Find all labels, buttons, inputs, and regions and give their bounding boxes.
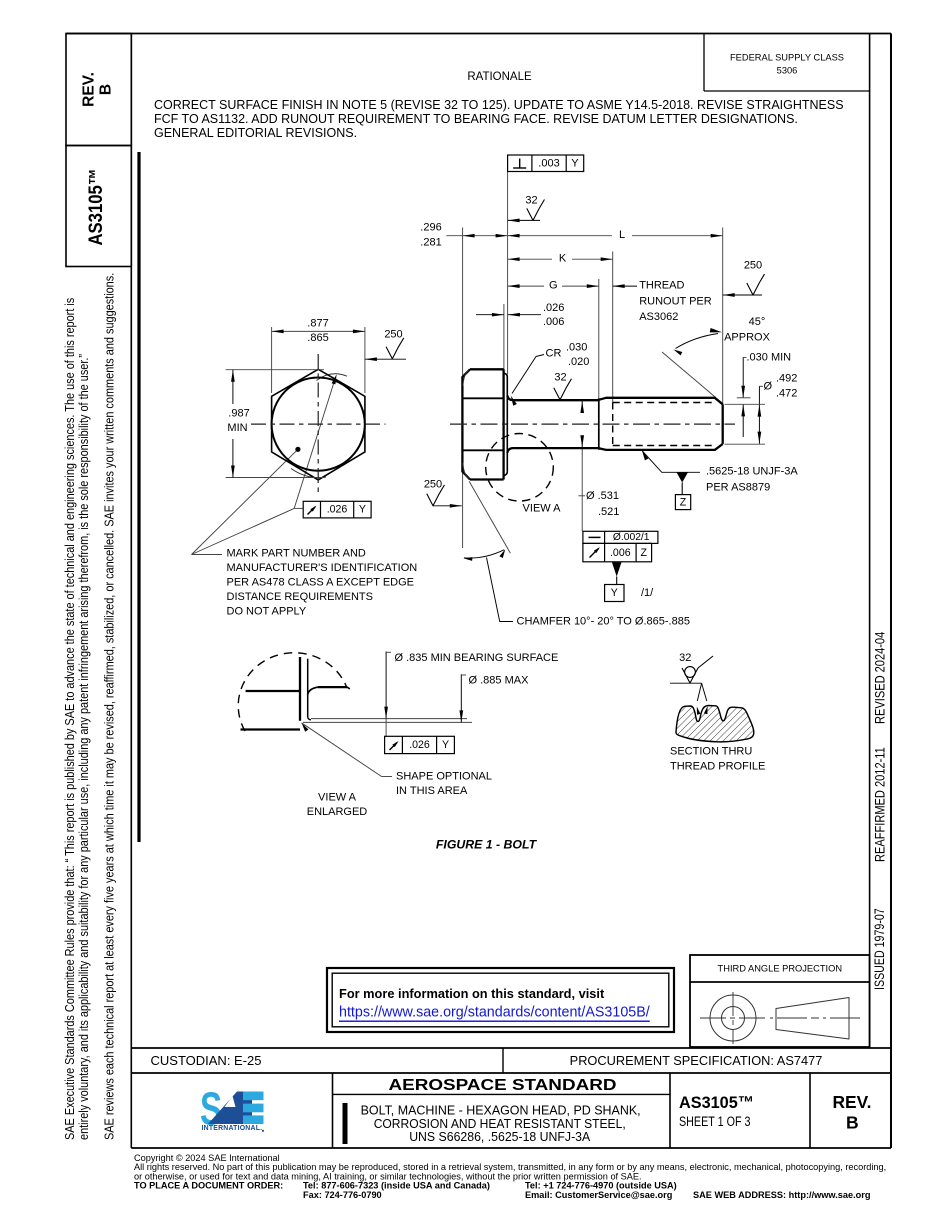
svg-text:Tel: 877-606-7323 (inside USA: Tel: 877-606-7323 (inside USA and Canada… — [303, 1181, 490, 1191]
svg-text:Y: Y — [611, 587, 618, 599]
svg-text:32: 32 — [679, 652, 691, 664]
svg-text:REAFFIRMED 2012-11: REAFFIRMED 2012-11 — [871, 747, 888, 862]
svg-text:Z: Z — [641, 547, 648, 559]
svg-text:B: B — [98, 84, 115, 95]
svg-text:ISSUED 1979-07: ISSUED 1979-07 — [871, 908, 887, 990]
svg-text:THREAD: THREAD — [639, 280, 684, 292]
svg-text:Z: Z — [680, 496, 687, 508]
svg-text:AS3062: AS3062 — [639, 311, 678, 323]
svg-text:Fax: 724-776-0790: Fax: 724-776-0790 — [303, 1190, 382, 1200]
svg-text:.987: .987 — [228, 407, 249, 419]
svg-text:CORRECT SURFACE FINISH IN NOTE: CORRECT SURFACE FINISH IN NOTE 5 (REVISE… — [154, 98, 844, 112]
svg-text:Ø .885 MAX: Ø .885 MAX — [469, 675, 530, 687]
svg-text:.492: .492 — [776, 373, 797, 385]
svg-text:AS3105™: AS3105™ — [85, 168, 106, 245]
svg-text:L: L — [619, 229, 625, 241]
svg-text:.472: .472 — [776, 387, 797, 399]
svg-text:.030 MIN: .030 MIN — [747, 351, 792, 363]
svg-text:250: 250 — [424, 478, 442, 490]
svg-text:GENERAL EDITORIAL REVISIONS.: GENERAL EDITORIAL REVISIONS. — [154, 126, 357, 140]
svg-text:RUNOUT PER: RUNOUT PER — [639, 296, 712, 308]
svg-text:SECTION THRU: SECTION THRU — [670, 745, 752, 757]
svg-text:.026: .026 — [409, 739, 430, 751]
svg-text:K: K — [559, 253, 567, 265]
svg-text:/1/: /1/ — [641, 587, 654, 599]
svg-text:APPROX: APPROX — [724, 331, 771, 343]
svg-text:Ø.002/1: Ø.002/1 — [613, 532, 650, 543]
svg-text:CUSTODIAN: E-25: CUSTODIAN: E-25 — [151, 1053, 262, 1068]
svg-text:FEDERAL SUPPLY CLASS: FEDERAL SUPPLY CLASS — [730, 53, 844, 63]
svg-text:REV.: REV. — [81, 72, 98, 107]
svg-text:entirely voluntary, and its ap: entirely voluntary, and its applicabilit… — [77, 354, 91, 1140]
svg-text:ENLARGED: ENLARGED — [307, 806, 368, 818]
svg-text:DISTANCE REQUIREMENTS: DISTANCE REQUIREMENTS — [227, 591, 373, 603]
svg-text:G: G — [549, 280, 558, 292]
svg-text:REVISED 2024-04: REVISED 2024-04 — [871, 632, 888, 724]
svg-text:Tel: +1 724-776-4970 (outside: Tel: +1 724-776-4970 (outside USA) — [525, 1181, 677, 1191]
svg-text:AS3105™: AS3105™ — [679, 1093, 754, 1112]
svg-text:5306: 5306 — [777, 66, 798, 76]
svg-text:.281: .281 — [420, 236, 441, 248]
svg-text:VIEW A: VIEW A — [318, 791, 357, 803]
svg-text:PER AS8879: PER AS8879 — [706, 482, 770, 494]
svg-text:AEROSPACE STANDARD: AEROSPACE STANDARD — [389, 1077, 617, 1094]
svg-text:SHEET 1 OF 3: SHEET 1 OF 3 — [679, 1114, 751, 1129]
svg-text:DO NOT APPLY: DO NOT APPLY — [227, 606, 307, 618]
svg-text:REV.: REV. — [833, 1092, 872, 1112]
svg-text:Ø: Ø — [764, 380, 773, 392]
svg-text:CHAMFER 10°- 20° TO Ø.865-.885: CHAMFER 10°- 20° TO Ø.865-.885 — [517, 615, 690, 627]
svg-text:THIRD ANGLE PROJECTION: THIRD ANGLE PROJECTION — [718, 964, 843, 974]
svg-text:Y: Y — [359, 504, 366, 516]
svg-text:.020: .020 — [568, 356, 589, 368]
svg-text:SAE reviews each technical rep: SAE reviews each technical report at lea… — [103, 273, 117, 1140]
svg-text:.521: .521 — [598, 506, 619, 518]
svg-text:MANUFACTURER'S IDENTIFICATION: MANUFACTURER'S IDENTIFICATION — [227, 562, 418, 574]
svg-text:Y: Y — [571, 158, 579, 170]
svg-text:CR: CR — [546, 348, 562, 360]
svg-text:SHAPE OPTIONAL: SHAPE OPTIONAL — [396, 770, 492, 782]
svg-text:TO PLACE A DOCUMENT ORDER:: TO PLACE A DOCUMENT ORDER: — [134, 1181, 283, 1191]
svg-text:SAE Executive Standards Commit: SAE Executive Standards Committee Rules … — [63, 298, 77, 1140]
svg-text:SAE WEB ADDRESS: http://www.sa: SAE WEB ADDRESS: http://www.sae.org — [693, 1190, 870, 1200]
svg-text:PER AS478 CLASS A EXCEPT EDGE: PER AS478 CLASS A EXCEPT EDGE — [227, 577, 415, 589]
svg-text:250: 250 — [744, 259, 762, 271]
svg-text:INTERNATIONAL.: INTERNATIONAL. — [202, 1125, 263, 1132]
svg-text:UNS S66286, .5625-18 UNFJ-3A: UNS S66286, .5625-18 UNFJ-3A — [409, 1129, 590, 1144]
svg-text:Ø .531: Ø .531 — [586, 490, 619, 502]
svg-text:VIEW A: VIEW A — [523, 502, 562, 514]
svg-text:250: 250 — [384, 328, 402, 340]
svg-text:FCF TO AS1132. ADD RUNOUT REQU: FCF TO AS1132. ADD RUNOUT REQUIREMENT TO… — [154, 112, 798, 126]
svg-text:.296: .296 — [420, 221, 441, 233]
svg-text:32: 32 — [525, 195, 537, 207]
svg-text:.030: .030 — [566, 341, 587, 353]
svg-text:Ø .835 MIN BEARING SURFACE: Ø .835 MIN BEARING SURFACE — [395, 652, 559, 664]
svg-text:Email: CustomerService@sae.org: Email: CustomerService@sae.org — [525, 1190, 672, 1200]
svg-text:45°: 45° — [749, 316, 766, 328]
svg-text:For more information on this s: For more information on this standard, v… — [339, 986, 605, 1001]
svg-text:https://www.sae.org/standards/: https://www.sae.org/standards/content/AS… — [339, 1005, 650, 1021]
svg-text:IN THIS AREA: IN THIS AREA — [396, 785, 468, 797]
svg-text:RATIONALE: RATIONALE — [467, 71, 532, 83]
svg-text:PROCUREMENT SPECIFICATION: AS7: PROCUREMENT SPECIFICATION: AS7477 — [570, 1053, 823, 1068]
svg-text:FIGURE 1 - BOLT: FIGURE 1 - BOLT — [436, 837, 538, 851]
svg-text:MARK PART NUMBER AND: MARK PART NUMBER AND — [227, 547, 366, 559]
svg-text:Y: Y — [442, 739, 449, 751]
svg-text:.003: .003 — [538, 158, 559, 170]
svg-text:32: 32 — [554, 371, 566, 383]
svg-text:B: B — [846, 1112, 859, 1132]
svg-text:THREAD PROFILE: THREAD PROFILE — [670, 760, 765, 772]
svg-text:.865: .865 — [307, 332, 328, 344]
svg-text:.006: .006 — [610, 547, 631, 559]
svg-text:.006: .006 — [543, 316, 564, 328]
svg-text:.026: .026 — [327, 504, 348, 516]
svg-text:MIN: MIN — [227, 422, 247, 434]
svg-text:.877: .877 — [307, 317, 328, 329]
svg-text:.5625-18 UNJF-3A: .5625-18 UNJF-3A — [706, 465, 798, 477]
svg-text:.026: .026 — [543, 302, 564, 314]
